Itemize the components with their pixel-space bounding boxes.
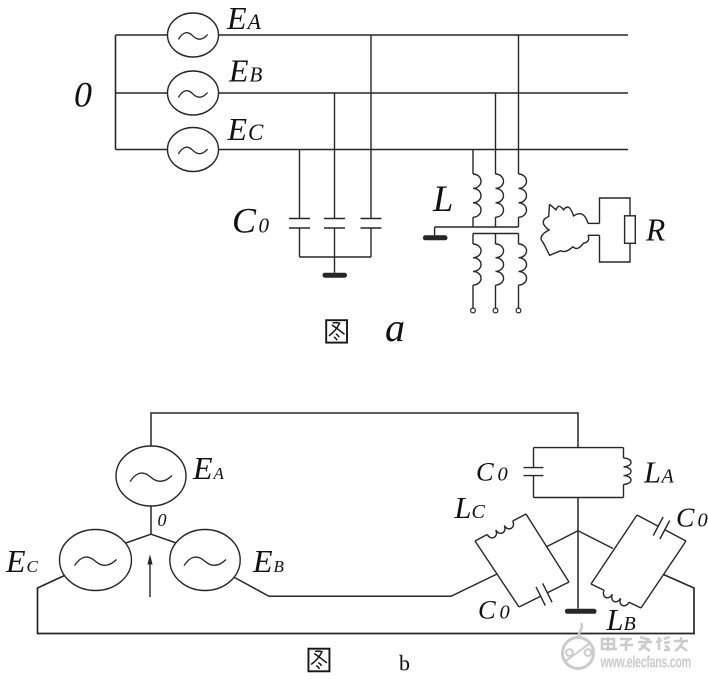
inductor L upper winding (x=473) bbox=[473, 174, 481, 217]
svg-text:R: R bbox=[645, 213, 665, 248]
inductor L lower winding (x=473) bbox=[472, 234, 474, 245]
svg-text:C: C bbox=[676, 502, 695, 533]
svg-text:0: 0 bbox=[74, 75, 92, 115]
svg-text:0: 0 bbox=[259, 214, 270, 238]
wire bbox=[495, 93, 497, 174]
svg-text:A: A bbox=[660, 466, 675, 488]
source EA (b) bbox=[116, 446, 186, 506]
wire tank A to ground bbox=[577, 498, 579, 609]
watermark text 电子发烧友 bbox=[602, 637, 688, 651]
wire load loop bottom bbox=[600, 235, 631, 262]
tank C left-bottom edge bbox=[475, 541, 519, 607]
caption 图 (a) bbox=[326, 320, 347, 342]
displacement voltage arrow bbox=[149, 563, 151, 597]
wire secondary common bbox=[473, 233, 519, 235]
svg-text:0: 0 bbox=[158, 510, 167, 530]
ground (arc suppression coil) bbox=[425, 235, 445, 240]
source EA bbox=[168, 13, 219, 57]
wire star point to tank C bbox=[546, 531, 578, 547]
wire EB to tank C bbox=[230, 574, 497, 596]
svg-text:EA: EA bbox=[226, 0, 262, 36]
svg-text:C: C bbox=[472, 501, 486, 523]
svg-text:L: L bbox=[643, 456, 661, 490]
wire star point to tank B bbox=[578, 531, 613, 549]
watermark logo bbox=[563, 623, 594, 669]
svg-text:0: 0 bbox=[698, 510, 708, 532]
tank A top edge bbox=[534, 447, 624, 449]
svg-text:www.elecfans.com: www.elecfans.com bbox=[600, 653, 691, 672]
wire neutral bbox=[435, 226, 519, 228]
svg-text:0: 0 bbox=[500, 601, 510, 623]
capacitor C0 (tank B top-right edge) bbox=[637, 515, 658, 526]
svg-text:C: C bbox=[476, 457, 494, 487]
wire arc to load (bottom stub) bbox=[588, 234, 600, 236]
terminal (x=473) bbox=[471, 308, 476, 313]
wire phase A bus bbox=[116, 34, 629, 36]
wire bbox=[370, 228, 372, 257]
wire bbox=[518, 217, 520, 227]
wire bbox=[472, 217, 474, 227]
inductor LC (tank C top-left edge) bbox=[513, 514, 526, 521]
resistor R bbox=[625, 216, 636, 244]
svg-text:EB: EB bbox=[252, 543, 285, 579]
terminal (x=495.5) bbox=[493, 308, 498, 313]
wire load loop top bbox=[600, 198, 631, 223]
wire bbox=[495, 217, 497, 227]
wire bbox=[334, 93, 336, 219]
source EC bbox=[168, 128, 219, 172]
wire capacitor common bbox=[300, 256, 372, 258]
capacitor C0 (x=334.5) bbox=[324, 218, 345, 220]
capacitor C0 (tank A) bbox=[533, 448, 535, 468]
wire node to EB bbox=[151, 534, 182, 545]
inductor L upper winding (x=495.5) bbox=[496, 174, 504, 217]
tank B right-bottom edge bbox=[641, 541, 686, 608]
wire bbox=[334, 228, 336, 257]
svg-text:a: a bbox=[385, 305, 405, 350]
svg-text:C: C bbox=[478, 594, 496, 624]
source EB bbox=[168, 71, 219, 115]
arc fault cloud bbox=[541, 204, 589, 255]
wire bbox=[370, 35, 372, 219]
wire bbox=[518, 35, 520, 174]
wire EA to node 0 bbox=[150, 506, 152, 534]
tank C right-top edge bbox=[526, 514, 569, 582]
inductor L upper winding (x=518.5) bbox=[519, 174, 527, 217]
ground (capacitor bank) bbox=[325, 273, 345, 278]
capacitor C0 (tank C bottom-right edge) bbox=[519, 596, 541, 607]
source EB (b) bbox=[170, 530, 240, 591]
svg-text:L: L bbox=[432, 178, 453, 219]
wire bbox=[334, 257, 336, 273]
svg-text:L: L bbox=[606, 603, 624, 637]
svg-text:0: 0 bbox=[498, 464, 508, 486]
ground (b) bbox=[567, 609, 594, 614]
node 0 bus (left vertical) bbox=[115, 35, 117, 150]
source EC (b) bbox=[60, 530, 132, 591]
wire EC loop (bottom) bbox=[38, 572, 695, 634]
inductor L lower winding (x=518.5) bbox=[518, 234, 520, 245]
inductor LA bbox=[623, 448, 625, 458]
terminal (x=518.5) bbox=[516, 308, 521, 313]
wire bbox=[299, 228, 301, 257]
tank A bottom edge bbox=[534, 497, 624, 499]
caption 图 (b) bbox=[308, 649, 329, 672]
capacitor C0 (x=371) bbox=[361, 218, 382, 220]
svg-text:EB: EB bbox=[228, 53, 263, 89]
wire arc to load (top stub) bbox=[588, 222, 600, 224]
svg-text:b: b bbox=[399, 651, 410, 676]
wire node to EC bbox=[120, 534, 151, 545]
svg-text:EC: EC bbox=[5, 543, 39, 579]
wire bbox=[472, 150, 474, 175]
svg-text:C: C bbox=[232, 201, 257, 241]
svg-text:B: B bbox=[624, 613, 636, 635]
wire bbox=[299, 150, 301, 219]
tank B left-top edge bbox=[591, 515, 637, 584]
wire bbox=[434, 227, 436, 235]
wire EA to tank A (top) bbox=[151, 413, 578, 448]
svg-text:EA: EA bbox=[192, 450, 225, 486]
wire phase C bus bbox=[116, 149, 629, 151]
inductor L lower winding (x=495.5) bbox=[495, 234, 497, 245]
capacitor C0 (x=299.5) bbox=[289, 218, 310, 220]
wire phase B bus bbox=[116, 92, 629, 94]
svg-text:L: L bbox=[454, 491, 472, 525]
inductor LB (tank B bottom-left edge) bbox=[629, 602, 641, 608]
svg-text:EC: EC bbox=[227, 111, 265, 147]
